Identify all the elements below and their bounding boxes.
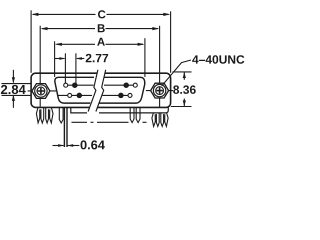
dim 0.64 arrow right xyxy=(68,145,80,147)
screw right cross recess xyxy=(156,87,163,94)
board lock fork right pair xyxy=(152,113,159,127)
dim B extension left xyxy=(39,26,41,107)
pin row2 right open circle xyxy=(128,93,132,97)
centerline stubs left screw xyxy=(28,90,57,92)
screw left cross recess xyxy=(38,88,45,95)
dim 2.77 arrow right outside xyxy=(77,58,85,60)
dim 2.84 label xyxy=(1,85,26,94)
dim 0.64 arrow left xyxy=(53,145,64,147)
dim 8.36 arrow up xyxy=(183,72,185,79)
dim B line xyxy=(42,28,158,30)
dim 8.36 arrow down xyxy=(183,99,185,107)
pin row2 left open circle xyxy=(68,93,72,97)
dim 2.77 label xyxy=(86,54,108,62)
dim C extension right xyxy=(170,11,172,73)
screw right inner circle xyxy=(156,87,164,95)
dim A extension left xyxy=(54,41,56,77)
dim 2.77 arrow left outside xyxy=(55,58,65,60)
board lock fork left pair xyxy=(36,108,43,123)
dim 2.84 tick top xyxy=(2,83,31,85)
dim B arrow right xyxy=(152,27,159,30)
long pcb pin (0.64 pin) sides xyxy=(64,108,67,147)
dim A arrow right xyxy=(138,43,145,46)
dim B extension right xyxy=(159,26,161,107)
dim A arrow left xyxy=(55,43,62,46)
dim B label xyxy=(98,24,105,32)
dim A extension right xyxy=(144,38,146,77)
break line left xyxy=(88,70,98,112)
screw right outer circle xyxy=(153,84,165,96)
dim 2.77 extension left xyxy=(64,53,66,83)
break mask xyxy=(88,70,106,112)
pin row 1 line xyxy=(68,84,134,86)
dim 0.64 label xyxy=(81,140,105,149)
pin row2 left filled dot xyxy=(77,93,81,97)
flange outline xyxy=(31,73,171,107)
dim 8.36 label xyxy=(173,85,196,94)
dim A label xyxy=(97,38,105,46)
pin 2 filled dot row1 left xyxy=(73,83,77,87)
pin 1 open circle row1 left xyxy=(64,83,68,87)
pin row1 right open circle xyxy=(133,83,137,87)
screw right hex xyxy=(151,83,169,98)
short pcb pin left of long pin xyxy=(59,108,63,123)
D-shell outline xyxy=(55,77,145,103)
short pcb pins right of break xyxy=(130,108,134,123)
dim B arrow left xyxy=(41,27,48,30)
dash-dot seating line xyxy=(72,121,147,123)
thread callout 4-40UNC leader xyxy=(162,60,191,86)
dim C arrow right xyxy=(163,13,170,16)
dim 8.36 tick top xyxy=(173,71,192,73)
dim A line xyxy=(57,43,144,45)
dim 2.84 arrow down xyxy=(12,70,14,83)
dim C line xyxy=(33,13,169,15)
dim 2.84 arrow up xyxy=(12,96,14,108)
dim C extension left xyxy=(30,10,32,73)
screw left outer circle xyxy=(35,85,47,97)
pin row2 right filled dot xyxy=(119,93,123,97)
body strip below flange xyxy=(71,107,169,113)
pin row1 right filled dot xyxy=(124,83,128,87)
pin row 2 line xyxy=(58,94,128,96)
thread callout label xyxy=(192,55,244,63)
break line right xyxy=(96,70,106,112)
dim C arrow left xyxy=(31,13,38,16)
centerline stubs right screw xyxy=(146,90,173,92)
dim 2.84 tick bottom xyxy=(2,94,31,96)
dim C label xyxy=(98,10,106,18)
screw left hex xyxy=(32,84,50,99)
dim 8.36 tick bottom xyxy=(171,106,192,108)
dim 2.77 extension right xyxy=(75,53,77,83)
screw left inner circle xyxy=(37,87,45,95)
